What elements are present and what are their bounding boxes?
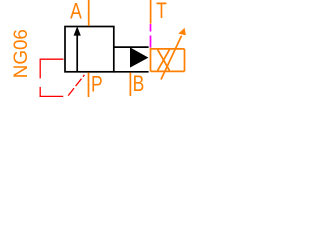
svg-text:A: A [70, 0, 82, 24]
svg-text:T: T [156, 0, 167, 23]
svg-text:NG06: NG06 [11, 29, 32, 78]
svg-text:B: B [133, 72, 145, 97]
svg-text:P: P [91, 73, 103, 98]
